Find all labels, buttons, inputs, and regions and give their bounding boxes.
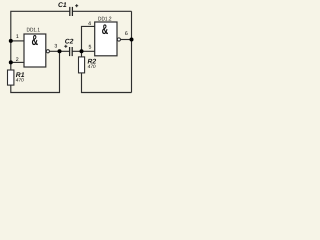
- svg-text:&: &: [31, 33, 38, 49]
- capacitor C2: [70, 47, 73, 56]
- junction node output DD1.1: [58, 49, 62, 53]
- svg-text:&: &: [102, 21, 109, 37]
- wire top from C1 right plate to right vertical: [72, 10, 131, 12]
- svg-text:5: 5: [89, 45, 92, 51]
- junction node pin2: [9, 60, 13, 64]
- svg-text:DD1.1: DD1.1: [27, 28, 41, 34]
- gate DD1.1: [24, 33, 46, 67]
- resistor R2: [79, 57, 85, 73]
- svg-text:6: 6: [125, 31, 128, 37]
- wire pin 1: [11, 40, 24, 42]
- junction node pin1: [9, 39, 13, 43]
- svg-text:4: 4: [88, 21, 91, 27]
- plus sign of C1: [75, 4, 78, 7]
- output bubble of DD1.2: [117, 38, 120, 41]
- svg-text:C2: C2: [65, 38, 74, 45]
- svg-text:3: 3: [54, 43, 57, 49]
- wire output pin 3 to C2 left plate: [50, 50, 70, 52]
- svg-text:470: 470: [16, 77, 24, 83]
- capacitor C1: [70, 7, 73, 16]
- wire top from left corner to C1 left plate: [11, 11, 70, 70]
- wire C2 right plate to pin 5: [72, 50, 95, 52]
- junction node output DD1.2: [130, 38, 134, 42]
- junction node C2/R2/pins 4-5: [80, 49, 84, 53]
- svg-text:DD1.2: DD1.2: [98, 17, 112, 23]
- wire pin 4 loop: [82, 26, 95, 51]
- wire right vertical: [131, 11, 133, 92]
- svg-text:2: 2: [16, 57, 19, 63]
- wire output pin 6: [121, 39, 132, 41]
- wire node pin3 down to bottom-left rail: [11, 51, 60, 92]
- resistor R1: [8, 70, 14, 85]
- output bubble of DD1.1: [46, 50, 49, 53]
- svg-text:C1: C1: [58, 2, 67, 9]
- svg-text:1: 1: [16, 34, 19, 40]
- svg-text:470: 470: [88, 64, 96, 70]
- plus sign of C2: [64, 45, 67, 48]
- gate DD1.2: [95, 21, 117, 56]
- wire pin 2: [11, 61, 24, 63]
- wire R2 stub and bottom-right rail: [82, 51, 132, 92]
